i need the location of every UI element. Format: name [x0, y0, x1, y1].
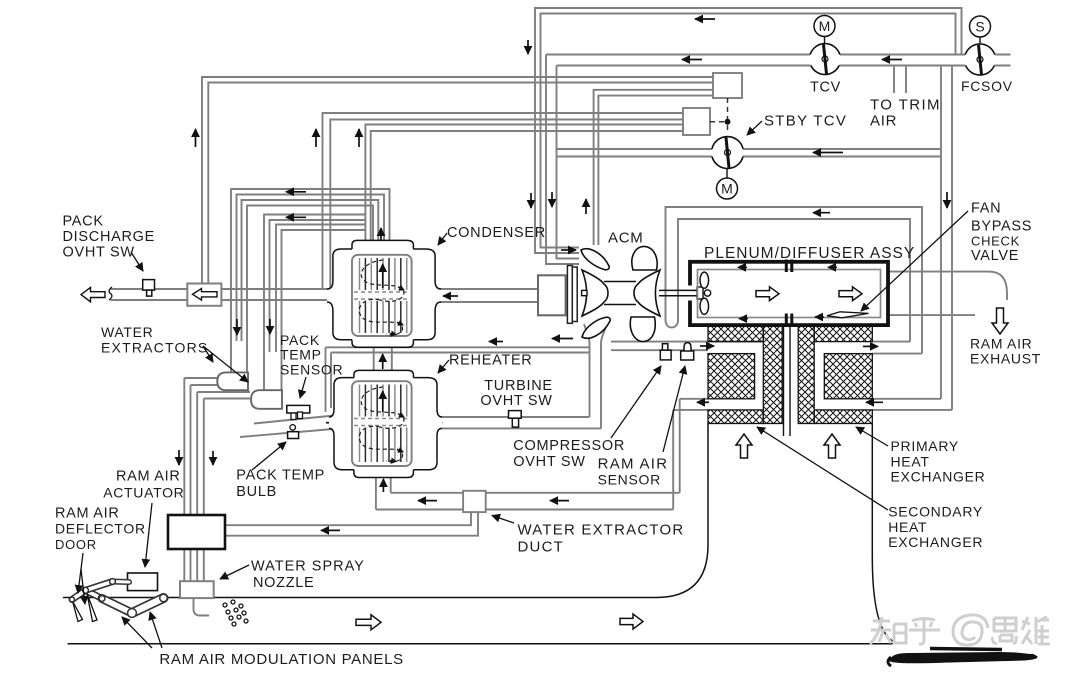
pack temp bulb link circle	[290, 425, 296, 431]
svg-text:RAM AIR: RAM AIR	[598, 455, 669, 472]
arrow left on condenser bottom bus 2	[552, 338, 573, 340]
arrow down on pipe A	[530, 193, 532, 208]
wire: primary HX top channel to right	[872, 342, 922, 354]
arrow up into condenser top	[380, 228, 382, 240]
arrow up beside pipe C	[585, 199, 587, 214]
condenser swirl arrowheads	[366, 287, 404, 392]
wire: pipe P4	[276, 225, 365, 353]
pointer ram air deflector door 2	[81, 569, 85, 604]
arrow left on fan bypass loop top	[813, 212, 830, 214]
secondary heat exchanger core island	[708, 354, 755, 399]
wire: fan bypass loop U-bend	[666, 320, 679, 328]
pointer pack temp sensor	[300, 377, 306, 398]
svg-text:COMPRESSOR: COMPRESSOR	[513, 438, 625, 454]
arrow right primary HX top channel	[863, 345, 878, 347]
watermark strike-through blob	[889, 652, 1037, 663]
wire: bleed top loop inner	[541, 14, 956, 248]
arrow left on P3	[286, 216, 306, 218]
ram air flow fat arrow right	[620, 614, 643, 629]
arrow left on water extractor duct pipe left	[418, 500, 437, 502]
arrow left on stby pipe	[813, 152, 843, 154]
wire: fan bypass loop inner	[678, 219, 910, 342]
reheater swirl arrowheads	[390, 414, 404, 462]
wire: ACM turbine outlet duct	[584, 324, 607, 428]
primary heat exchanger left column	[798, 326, 814, 423]
reheater swirl flow (dashed)	[359, 387, 404, 462]
svg-text:PRIMARY: PRIMARY	[891, 438, 959, 454]
ram air flow fat arrow left	[356, 615, 381, 630]
arrow left primary HX bottom channel	[866, 401, 883, 403]
plenum top ticks	[785, 260, 788, 273]
svg-text:SENSOR: SENSOR	[598, 472, 661, 488]
nozzle drain tube	[194, 598, 210, 615]
ACM rotor mid section	[604, 282, 636, 305]
wire: to-trim-air stub	[894, 67, 906, 94]
plenum inner liner	[698, 270, 881, 318]
svg-text:STBY TCV: STBY TCV	[764, 112, 847, 129]
ram air exhaust down arrow	[992, 308, 1008, 334]
reheater body outline	[329, 370, 442, 477]
gap channel between heat exchangers	[784, 325, 791, 436]
arrow left on water extractor duct pipe right	[550, 500, 569, 502]
secondary heat exchanger right column	[763, 326, 782, 423]
svg-text:TCV: TCV	[810, 80, 841, 96]
svg-text:CONDENSER: CONDENSER	[447, 225, 546, 241]
wire: condenser-reheater stub	[374, 347, 392, 370]
primary heat exchanger bottom strip	[814, 410, 872, 424]
wire: reheater to turbine pipe	[437, 417, 601, 428]
water extractor duct box	[463, 491, 486, 512]
arrow up beside riser E	[358, 129, 360, 147]
ACM turbine bottom dome	[630, 317, 655, 342]
svg-text:WATER SPRAY: WATER SPRAY	[251, 558, 365, 574]
wire: pipe P3	[264, 215, 365, 353]
svg-text:RAM AIR MODULATION PANELS: RAM AIR MODULATION PANELS	[159, 651, 404, 668]
svg-text:OVHT SW: OVHT SW	[480, 393, 552, 409]
svg-text:SENSOR: SENSOR	[280, 362, 343, 378]
svg-text:WATER EXTRACTOR: WATER EXTRACTOR	[518, 522, 685, 539]
arrow down on FCSOV down pipe	[946, 192, 948, 208]
arrow left on condenser bottom bus 1	[489, 341, 503, 343]
arrow down on drain line 1	[178, 450, 180, 465]
arrow left on TCV pipe right of valve	[882, 59, 902, 61]
check valve box on pack line	[187, 284, 221, 306]
wire: HX bottom band to FCSOV pipe	[872, 399, 952, 410]
motor M of TCV	[814, 16, 835, 45]
plenum wall gap for fan shaft	[687, 286, 694, 301]
arrow up condenser-reheater stub	[382, 354, 384, 369]
wire: TCV main pipe top	[546, 55, 1011, 265]
pointer water extractor duct	[492, 516, 514, 524]
junction dot	[725, 119, 731, 125]
ram air duct wall right (primary HX to floor)	[872, 424, 902, 644]
fan blade lower	[700, 298, 709, 314]
arrow left on TCV pipe left of valve	[682, 59, 702, 61]
solenoid S of FCSOV	[970, 16, 991, 45]
ACM turbine wheel	[634, 270, 660, 316]
pointer water extractors 2	[203, 346, 248, 382]
ACM output shaft to fan	[659, 290, 697, 295]
wire: bleed top loop outer	[535, 8, 962, 253]
arrow down on extractor duct 2	[269, 319, 271, 334]
svg-text:M: M	[819, 18, 831, 34]
ACM compressor inlet blade	[581, 249, 609, 270]
pointer primary heat exchanger	[856, 427, 888, 446]
svg-text:RAM AIR: RAM AIR	[55, 505, 120, 521]
svg-text:HEAT: HEAT	[888, 519, 927, 535]
plenum/diffuser assy box	[690, 262, 888, 325]
wire: pipe P2 condenser feed	[242, 200, 379, 341]
watermark zhihu glyphs	[870, 615, 1050, 645]
water extractor capsule 2	[251, 390, 282, 409]
arrow up beside riser D	[315, 129, 317, 147]
ACM compressor wheel	[582, 270, 608, 316]
wire: drain lines from water extractor box	[225, 512, 478, 536]
wire: pack riser from check valve box to controller	[202, 77, 713, 284]
pack discharge outlet fat arrow	[81, 287, 105, 301]
svg-text:EXTRACTORS: EXTRACTORS	[101, 340, 208, 356]
pointer water extractors 1	[203, 346, 213, 362]
arrow up reheater bottom stub	[382, 479, 384, 492]
fan bypass check valve flag	[827, 312, 869, 318]
wire: pack discharge pipe	[111, 289, 334, 300]
wire: actuator to spray nozzle lines	[184, 549, 204, 581]
ram air up arrow 1	[736, 434, 752, 458]
ACM backing plates	[567, 266, 572, 324]
wire: controller line C riser	[594, 90, 713, 245]
condenser inner core	[352, 255, 412, 336]
wire: FCSOV down pipe to primary HX	[941, 67, 952, 410]
pointer fan bypass check valve	[861, 211, 968, 311]
arrow left into condenser left port	[331, 294, 339, 296]
condenser swirl flow (dashed)	[359, 260, 404, 335]
svg-text:BYPASS: BYPASS	[971, 218, 1032, 234]
svg-text:BULB: BULB	[236, 484, 277, 500]
pack temp bulb	[288, 432, 299, 439]
pointer stby tcv	[747, 121, 762, 135]
svg-text:RAM AIR: RAM AIR	[970, 335, 1032, 351]
arrow down on drain line 2	[212, 451, 214, 465]
wire: extractor tilted duct to reheater	[240, 415, 344, 438]
pointer compressor ovht sw	[611, 366, 661, 438]
reheater center up arrow	[382, 391, 384, 412]
pack temp sensor bar	[287, 405, 310, 413]
wire: TCV main pipe bottom	[557, 66, 1011, 259]
pointer secondary heat exchanger	[757, 427, 888, 510]
pointer modulation panels 2	[150, 612, 162, 648]
wire: reheater bottom stub	[376, 478, 391, 510]
wire: ram air exhaust duct bottom	[888, 314, 975, 316]
svg-text:HEAT: HEAT	[891, 453, 930, 469]
svg-text:TEMP: TEMP	[280, 347, 322, 363]
ram air sensor device	[681, 343, 694, 360]
svg-text:AIR: AIR	[870, 112, 897, 129]
pack discharge OVHT SW sensor	[143, 280, 155, 297]
pipe break squiggle	[109, 287, 112, 300]
wire: duct to water extractor 1	[231, 341, 247, 372]
pointer ram air deflector door 1	[78, 553, 83, 593]
svg-text:TURBINE: TURBINE	[484, 378, 553, 394]
controller box 2	[683, 108, 710, 135]
wire: fan bypass loop outer	[666, 207, 923, 354]
ram air actuator box	[168, 515, 225, 549]
svg-text:DISCHARGE: DISCHARGE	[63, 229, 156, 245]
svg-text:VALVE: VALVE	[971, 248, 1019, 264]
arrow right into reheater left port	[326, 422, 337, 424]
primary heat exchanger core island	[824, 354, 872, 399]
svg-text:PACK TEMP: PACK TEMP	[236, 468, 325, 484]
plenum fat arrow 2	[839, 287, 862, 301]
svg-text:NOZZLE: NOZZLE	[253, 575, 314, 591]
primary heat exchanger top strip	[814, 326, 872, 342]
controller box 1	[713, 73, 742, 98]
arrow left right of condenser	[443, 295, 458, 297]
fan blade upper	[700, 272, 709, 288]
svg-text:PLENUM/DIFFUSER ASSY: PLENUM/DIFFUSER ASSY	[704, 245, 915, 262]
plenum fat arrow 1	[756, 287, 779, 301]
svg-text:RAM AIR: RAM AIR	[116, 468, 181, 484]
wire: compressor discharge to secondary HX	[611, 342, 763, 351]
valve TCV body	[810, 44, 841, 75]
svg-text:EXHAUST: EXHAUST	[970, 350, 1041, 366]
svg-text:CHECK: CHECK	[971, 233, 1020, 248]
wire: sensor line D riser	[323, 113, 684, 289]
svg-text:SECONDARY: SECONDARY	[888, 503, 983, 519]
svg-text:FAN: FAN	[971, 200, 1001, 216]
wire: secondary HX bottom exit to extractor duct	[673, 399, 708, 510]
condenser body outline	[327, 240, 441, 347]
arrow down left of top loop corner	[527, 40, 529, 54]
fan hub	[697, 287, 703, 299]
check valve arrow	[193, 289, 218, 301]
linkage joints	[70, 579, 168, 618]
pointer pack temp bulb	[252, 442, 286, 470]
svg-text:DUCT: DUCT	[518, 538, 564, 555]
door panels (blades)	[73, 601, 83, 622]
door linkage bars	[72, 582, 164, 614]
wire: pipe P1 condenser feed	[231, 189, 390, 341]
condenser core plates	[354, 258, 410, 333]
secondary heat exchanger bottom strip	[708, 410, 763, 424]
ram air up arrow 2	[824, 434, 840, 458]
flow arrows (black)	[179, 19, 947, 530]
motor M of STBY TCV	[717, 169, 738, 200]
ACM shaft hub square	[582, 290, 587, 295]
svg-text:WATER: WATER	[101, 324, 154, 340]
arrow right on compressor discharge	[700, 345, 714, 347]
arrow left on top loop	[695, 18, 715, 20]
spray droplets	[223, 600, 248, 626]
arrow left on actuator drain lines	[321, 529, 340, 531]
svg-text:DEFLECTOR: DEFLECTOR	[55, 520, 146, 536]
wire: water extractor duct pipe	[376, 493, 680, 510]
arrow left on P1	[286, 191, 306, 193]
pointer reheater	[438, 360, 449, 373]
svg-text:S: S	[975, 19, 984, 35]
water spray nozzle box	[180, 581, 214, 598]
dashed control line to STBY TCV	[710, 98, 728, 134]
wire: sensor line E riser to condenser	[365, 125, 683, 242]
svg-text:REHEATER: REHEATER	[449, 352, 532, 368]
svg-text:EXCHANGER: EXCHANGER	[891, 468, 986, 484]
pointer condenser	[438, 233, 447, 245]
pointer ram air sensor	[663, 366, 685, 452]
compressor OVHT SW sensor	[660, 344, 671, 360]
ACM inlet box	[538, 275, 566, 315]
arrow down on extractor duct 1	[236, 319, 238, 335]
wire: stby tcv pipe	[557, 149, 942, 157]
svg-text:PACK: PACK	[63, 213, 104, 229]
svg-text:ACM: ACM	[608, 230, 643, 247]
fan shaft through wall	[687, 290, 698, 295]
reheater inner core	[352, 381, 412, 466]
arrow right out of reheater right port	[429, 422, 442, 424]
svg-text:EXCHANGER: EXCHANGER	[888, 534, 983, 550]
svg-text:DOOR: DOOR	[55, 537, 97, 552]
svg-text:ACTUATOR: ACTUATOR	[103, 485, 184, 501]
svg-text:OVHT SW: OVHT SW	[513, 454, 585, 470]
pack temp sensor stems	[291, 413, 296, 420]
pointer ram air actuator	[145, 503, 152, 567]
wire: ram air exhaust duct top	[888, 272, 1007, 300]
condenser center up arrow	[382, 264, 384, 288]
wire: drain lines to ram air actuator	[184, 378, 250, 515]
arrow right into ACM compressor inlet	[561, 249, 576, 251]
valve STBY TCV body	[712, 137, 744, 169]
reheater core plates	[354, 385, 410, 463]
ACM compressor outlet blade	[582, 317, 610, 338]
wire: duct to water extractor 2	[264, 352, 282, 390]
ACM turbine top dome	[632, 246, 657, 270]
svg-text:FCSOV: FCSOV	[961, 78, 1013, 94]
ram air duct wall left (secondary HX to floor)	[63, 424, 708, 598]
plenum bottom ticks	[785, 314, 788, 328]
svg-text:M: M	[721, 181, 733, 197]
pointer pack discharge ovht sw	[131, 252, 143, 271]
pointer modulation panels 1	[122, 617, 152, 648]
secondary heat exchanger top strip	[708, 326, 763, 342]
wire: condenser outlet to ACM inlet	[435, 289, 538, 302]
svg-text:OVHT SW: OVHT SW	[63, 244, 135, 260]
ram air duct floor lower line	[68, 643, 899, 645]
svg-text:TO TRIM: TO TRIM	[870, 96, 941, 113]
ram air door actuator rect	[128, 573, 158, 591]
turbine OVHT SW sensor	[509, 411, 522, 428]
valve FCSOV body	[965, 44, 996, 75]
arrow down on pipe B	[551, 192, 553, 207]
plenum top gap arrows	[738, 267, 837, 318]
arrow left secondary HX bottom channel	[697, 401, 709, 403]
wire: condenser bottom bus	[326, 347, 591, 412]
water extractor capsule 1	[217, 372, 248, 390]
arrow up beside pack riser	[195, 129, 197, 147]
pointer water spray nozzle	[220, 565, 249, 579]
